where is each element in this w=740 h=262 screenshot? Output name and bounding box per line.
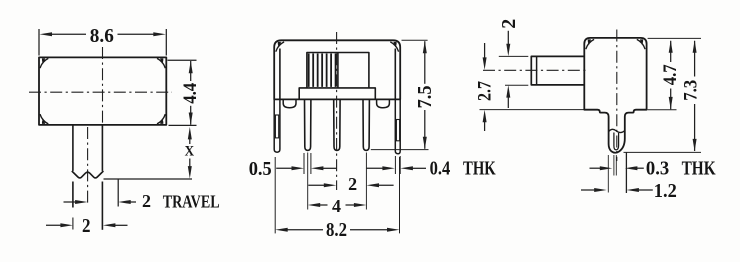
svg-text:4: 4 <box>332 196 341 216</box>
svg-text:THK: THK <box>682 158 716 180</box>
svg-text:8.2: 8.2 <box>326 219 347 241</box>
svg-text:2: 2 <box>142 191 151 211</box>
svg-text:2: 2 <box>82 215 91 237</box>
svg-text:7.5: 7.5 <box>414 85 436 108</box>
svg-text:0.5: 0.5 <box>249 158 272 180</box>
svg-text:1.2: 1.2 <box>654 180 677 202</box>
svg-text:0.4: 0.4 <box>430 158 451 180</box>
svg-text:4.4: 4.4 <box>181 83 201 104</box>
svg-text:2: 2 <box>348 174 357 194</box>
svg-text:TRAVEL: TRAVEL <box>163 191 220 211</box>
svg-text:2.7: 2.7 <box>475 81 496 101</box>
svg-text:2: 2 <box>498 19 520 29</box>
svg-text:THK: THK <box>463 158 496 180</box>
svg-text:8.6: 8.6 <box>90 25 114 47</box>
svg-text:7.3: 7.3 <box>681 80 702 101</box>
svg-text:0.3: 0.3 <box>646 158 669 180</box>
svg-text:4.7: 4.7 <box>660 64 681 85</box>
svg-text:X: X <box>185 143 195 159</box>
